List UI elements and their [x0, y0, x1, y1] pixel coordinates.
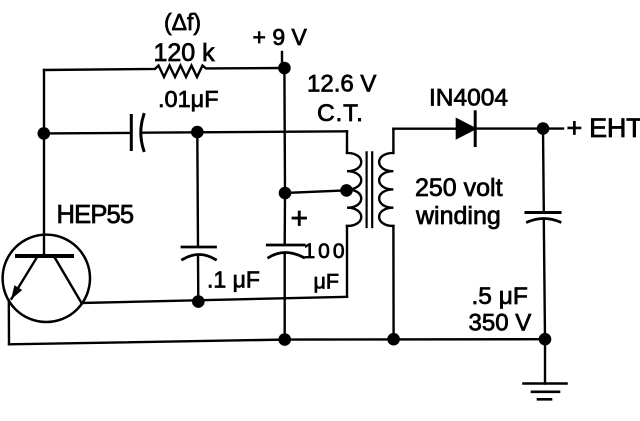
- svg-text:μF: μF: [314, 270, 340, 294]
- svg-text:+ EHT: + EHT: [567, 113, 640, 143]
- svg-text:IN4004: IN4004: [429, 85, 508, 112]
- svg-text:.5 μF: .5 μF: [472, 283, 528, 310]
- svg-text:350 V: 350 V: [469, 310, 532, 337]
- svg-text:HEP55: HEP55: [57, 201, 134, 229]
- svg-text:.01μF: .01μF: [158, 86, 219, 112]
- svg-text:(Δf): (Δf): [164, 9, 201, 35]
- svg-text:250 volt: 250 volt: [415, 174, 503, 202]
- svg-text:winding: winding: [415, 202, 501, 230]
- svg-text:C.T.: C.T.: [317, 100, 364, 127]
- svg-text:+ 9 V: + 9 V: [253, 24, 308, 50]
- svg-text:12.6 V: 12.6 V: [307, 71, 376, 98]
- svg-text:100: 100: [304, 240, 348, 263]
- svg-text:+: +: [291, 202, 309, 235]
- svg-text:120 k: 120 k: [154, 39, 216, 67]
- svg-text:.1 μF: .1 μF: [207, 266, 260, 292]
